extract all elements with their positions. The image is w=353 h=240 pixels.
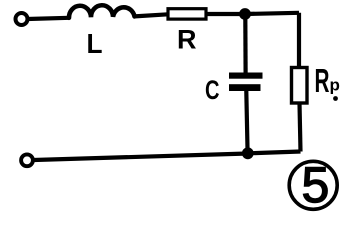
wire bottom-right corner to node B	[248, 152, 301, 154]
svg-text:p: p	[330, 76, 340, 95]
terminal T1 (top-left input)	[16, 13, 28, 25]
svg-text:L: L	[87, 28, 103, 59]
wire capacitor C down to node B	[246, 91, 247, 153]
wire resistor to node A	[206, 12, 245, 16]
ink speck below label p	[333, 96, 338, 101]
resistor Rp (vertical box)	[292, 68, 308, 104]
inductor L1	[69, 5, 135, 18]
wire node B to terminal T2	[34, 154, 248, 161]
capacitor C top plate	[229, 73, 263, 79]
node A (top junction dot)	[239, 8, 251, 20]
wire node A down to capacitor C	[243, 14, 248, 73]
node B (bottom junction dot)	[242, 147, 254, 159]
svg-text:5: 5	[302, 157, 330, 213]
terminal T2 (bottom-left input)	[21, 154, 33, 166]
wire node A to top-right corner	[245, 13, 299, 14]
svg-text:R: R	[177, 25, 197, 55]
wire top-right corner down to Rp	[297, 13, 301, 68]
figure number badge (circled 5)	[289, 161, 337, 209]
resistor R (horizontal box)	[168, 9, 206, 19]
svg-text:R: R	[315, 62, 330, 99]
wire inductor to resistor R	[135, 14, 169, 16]
wire terminal T1 to inductor	[28, 18, 70, 19]
wire Rp down to bottom-right corner	[300, 103, 301, 152]
svg-text:C: C	[205, 75, 220, 105]
capacitor C bottom plate	[229, 84, 261, 91]
